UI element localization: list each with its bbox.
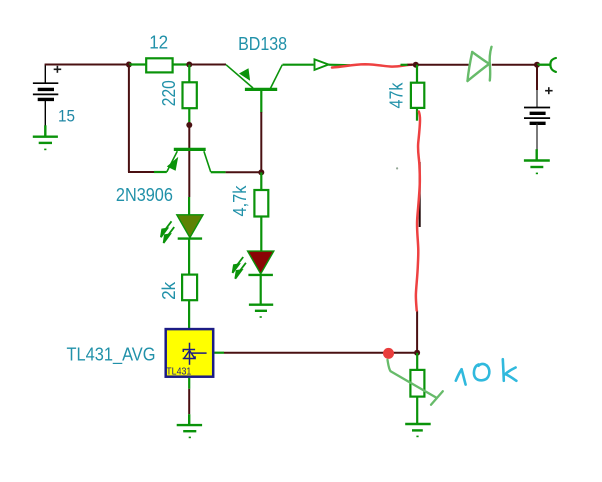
Q2 emitter arrow xyxy=(167,157,178,171)
value label 12 xyxy=(149,32,168,52)
LED2 arrows xyxy=(233,257,246,279)
wire Q2 collector stub xyxy=(211,171,226,173)
node F junction xyxy=(258,169,264,175)
wire LED1 to R 2k xyxy=(188,239,190,275)
ground GND under B2 xyxy=(524,149,550,173)
node C junction xyxy=(413,62,419,68)
Q2 collector line xyxy=(204,151,211,172)
Q1 base bar xyxy=(245,88,277,91)
wire node C to diode xyxy=(416,64,469,66)
wire R 2k to U1 xyxy=(188,300,190,328)
svg-text:220: 220 xyxy=(159,80,179,106)
battery B2 plus sign xyxy=(545,87,553,94)
svg-text:12: 12 xyxy=(149,32,168,52)
wire node B to Q1 emitter xyxy=(189,64,226,66)
svg-text:TL431_AVG: TL431_AVG xyxy=(67,344,156,365)
value label 2k xyxy=(159,281,179,300)
value label 15 xyxy=(58,107,75,126)
node B junction xyxy=(186,62,192,68)
wire node G to potentiometer xyxy=(416,353,418,370)
wire node G up xyxy=(416,310,418,352)
arrow marker (net pointer) xyxy=(315,59,329,70)
node A junction xyxy=(126,62,132,68)
value label 4,7k xyxy=(230,185,250,217)
svg-text:2N3906: 2N3906 xyxy=(116,185,173,205)
wire R 220 to node E xyxy=(188,108,190,125)
node G junction xyxy=(414,350,420,356)
wire Q1 collector to arrow marker xyxy=(283,64,314,66)
node E junction xyxy=(186,122,192,128)
wire corner to Q2 emitter xyxy=(128,171,154,173)
battery B2 top lead xyxy=(536,90,538,108)
Q2 emitter line xyxy=(167,151,178,172)
label 2N3906 xyxy=(116,185,173,205)
svg-text:47k: 47k xyxy=(386,82,406,109)
wire U1 to node G xyxy=(224,352,417,354)
node C to R 47k stub xyxy=(416,65,418,83)
wire Q1 base down to node F xyxy=(260,112,262,172)
ground GND under potentiometer xyxy=(405,424,431,436)
wire stub after arrow xyxy=(329,64,351,67)
Q1 emitter line xyxy=(226,65,253,88)
wire diode to node D xyxy=(492,64,537,66)
value label 47k xyxy=(386,82,406,109)
node D junction xyxy=(534,62,540,68)
label TL431_AVG xyxy=(67,344,156,365)
resistor 4,7k xyxy=(254,190,268,217)
wire Q2 collector to node F xyxy=(226,171,262,173)
resistor 47k xyxy=(411,83,424,108)
LED1 arrows xyxy=(161,221,174,243)
U1 right pin stub xyxy=(215,352,225,354)
wire U1 bottom to ground xyxy=(188,389,190,414)
ground GND under U1 xyxy=(177,414,202,437)
battery B2 bottom lead xyxy=(536,123,538,150)
resistor 12 xyxy=(146,58,172,72)
wire below R 47k xyxy=(416,108,418,121)
label BD138 xyxy=(238,34,287,54)
svg-text:2k: 2k xyxy=(159,281,179,300)
U1 internal symbol xyxy=(183,343,207,365)
wire R 4,7k to LED2 xyxy=(260,217,262,252)
resistor 2k xyxy=(182,275,197,301)
handwritten label 10k xyxy=(456,359,517,384)
wire node A to R 12 xyxy=(129,63,146,65)
svg-text:TL431: TL431 xyxy=(166,366,191,378)
value label 220 xyxy=(159,80,179,106)
svg-text:15: 15 xyxy=(58,107,75,126)
LED1 green xyxy=(161,197,203,243)
ground GND under LED2 xyxy=(249,305,273,317)
Q1 base lead xyxy=(260,91,262,113)
wire node B down to R 220 xyxy=(188,65,190,83)
wire node F to R 4,7k xyxy=(260,172,262,190)
wire R 12 to node B xyxy=(173,63,190,65)
potentiometer wiper hand-drawn xyxy=(388,360,443,405)
LED2 red xyxy=(233,251,274,279)
wire stub left of node C xyxy=(401,64,409,66)
wire LED2 to ground xyxy=(260,275,262,305)
hand-drawn red wire right xyxy=(416,112,420,311)
IC U1 TL431 box xyxy=(166,329,214,378)
potentiometer 10k body xyxy=(410,370,424,397)
transistor Q2 2N3906 (PNP) xyxy=(167,149,211,172)
U1 bottom pin stub xyxy=(188,378,190,389)
wire stub to Q2 emitter xyxy=(154,171,167,173)
red dot marker xyxy=(383,348,394,359)
wire to node C xyxy=(408,64,416,66)
svg-text:4,7k: 4,7k xyxy=(230,185,250,217)
Q1 collector line xyxy=(270,65,282,89)
battery B1 bottom lead xyxy=(44,99,46,126)
battery B1 plus sign xyxy=(54,66,62,73)
Q2 base bar xyxy=(174,148,206,151)
hand-drawn diode D1 xyxy=(468,47,492,81)
wire node D down xyxy=(536,65,538,90)
wire battery+ to node A xyxy=(45,64,129,66)
Q1 emitter arrow xyxy=(239,68,250,81)
output terminal arc xyxy=(537,58,556,72)
svg-text:BD138: BD138 xyxy=(238,34,287,54)
hand-drawn black line segment xyxy=(419,162,421,227)
transistor Q1 BD138 (PNP) xyxy=(226,65,282,113)
wire node E down through Q2 base to LED1 xyxy=(188,125,190,197)
wire potentiometer to ground xyxy=(416,397,418,424)
battery B1 plates xyxy=(33,83,58,99)
battery B2 plates xyxy=(524,108,550,124)
wire node A down left branch xyxy=(128,65,130,173)
stray mark xyxy=(396,167,398,169)
ground GND under B1 xyxy=(33,125,58,149)
resistor 220 xyxy=(183,82,197,108)
hand-drawn red wire top xyxy=(332,64,412,67)
battery B1 15V left: top lead xyxy=(44,65,46,84)
